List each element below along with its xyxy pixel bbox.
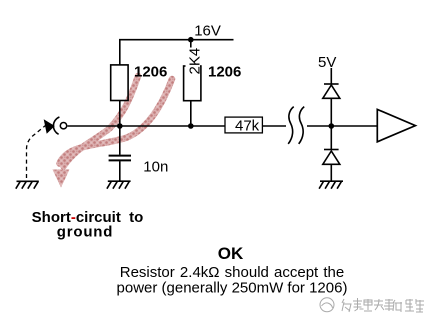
svg-text:OK: OK: [218, 244, 244, 263]
svg-text:16V: 16V: [194, 23, 221, 40]
svg-text:ground: ground: [57, 223, 113, 240]
svg-text:1206: 1206: [134, 63, 167, 80]
svg-text:10n: 10n: [143, 159, 168, 176]
svg-text:1206: 1206: [208, 63, 241, 80]
svg-text:5V: 5V: [318, 54, 336, 71]
svg-text:2K4: 2K4: [187, 48, 204, 75]
svg-text:Resistor 2.4kΩ should accept t: Resistor 2.4kΩ should accept the: [120, 264, 345, 281]
svg-text:47k: 47k: [235, 118, 260, 135]
svg-text:power (generally 250mW for 120: power (generally 250mW for 1206): [117, 280, 348, 297]
